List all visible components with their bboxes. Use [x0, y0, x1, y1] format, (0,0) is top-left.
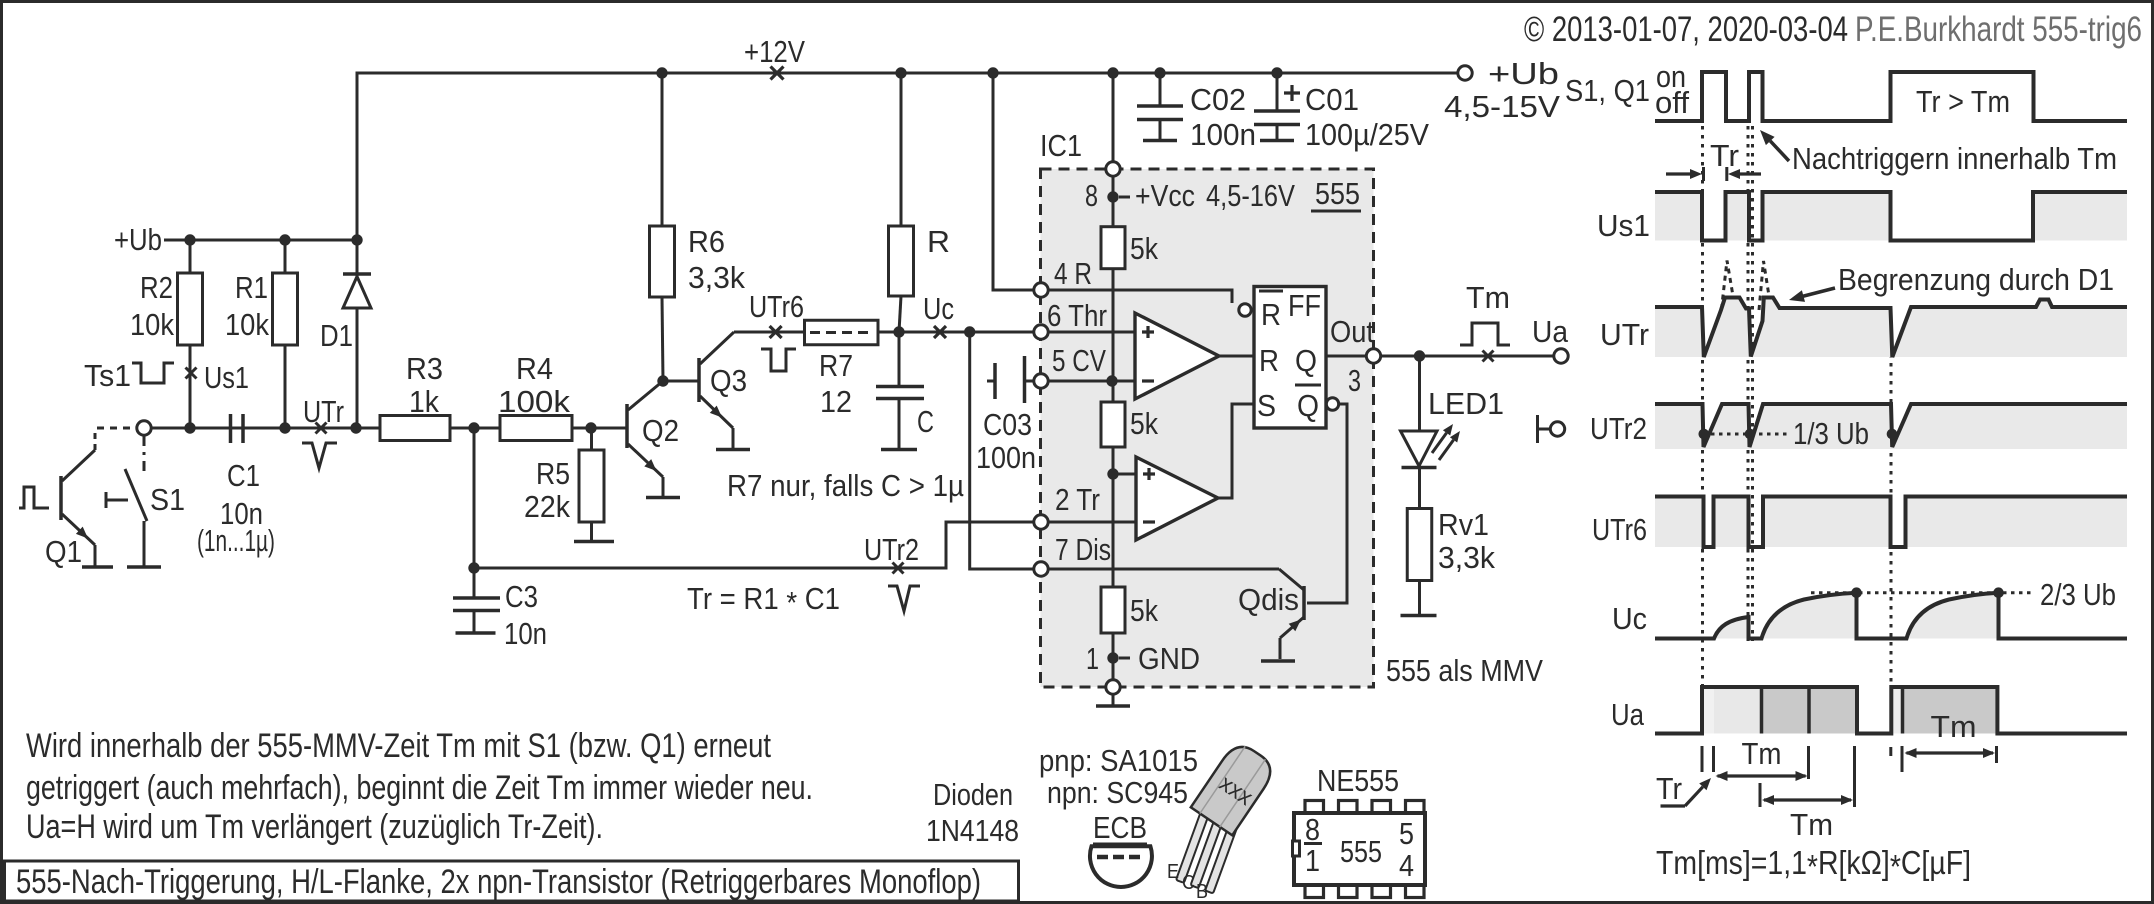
capacitor C01 (electrolytic, +) [1276, 73, 1279, 111]
svg-text:1k: 1k [409, 384, 439, 419]
svg-text:Q2: Q2 [642, 413, 679, 448]
svg-text:D1: D1 [320, 318, 353, 353]
capacitor C [898, 332, 901, 386]
capacitor C3 [473, 428, 476, 568]
svg-text:2/3 Ub: 2/3 Ub [2040, 577, 2116, 612]
svg-text:Ua: Ua [1532, 314, 1569, 349]
wire output Ua [1380, 355, 1554, 358]
svg-text:Rv1: Rv1 [1438, 507, 1489, 542]
annotation Tm dimension 2 [1759, 783, 1762, 807]
svg-text:C1: C1 [227, 458, 260, 493]
junction main/C3 [468, 422, 479, 433]
svg-text:C: C [917, 404, 934, 439]
wire UTr2 line [474, 522, 1033, 568]
svg-text:Us1: Us1 [204, 360, 249, 395]
symbol TO-92 bottom view [1090, 846, 1152, 887]
svg-text:5k: 5k [1130, 593, 1158, 628]
svg-text:555: 555 [1315, 176, 1360, 211]
svg-text:(1n...1µ): (1n...1µ) [197, 523, 275, 558]
svg-text:+Ub: +Ub [114, 222, 162, 257]
resistor R5 [590, 428, 593, 450]
wire comp1 to R [1219, 355, 1254, 358]
capacitor C03 [987, 380, 995, 383]
pin 1 GND [1112, 633, 1115, 680]
svg-text:R2: R2 [140, 270, 173, 305]
svg-text:+12V: +12V [744, 34, 805, 69]
svg-text:3: 3 [1348, 363, 1361, 398]
svg-text:1N4148: 1N4148 [926, 813, 1019, 848]
wire comp2 to S [1217, 404, 1254, 498]
svg-text:4,5-16V: 4,5-16V [1206, 178, 1295, 213]
title box [5, 861, 1019, 901]
svg-text:off: off [1655, 85, 1689, 120]
symbol TO-92 package 3D [1176, 807, 1240, 894]
svg-text:R6: R6 [688, 224, 725, 259]
svg-text:10k: 10k [225, 307, 269, 342]
resistor 5k bottom [1101, 587, 1125, 633]
wire +12V top rail [357, 72, 1465, 75]
wire Uc line [878, 331, 1033, 334]
svg-text:E: E [1167, 861, 1179, 883]
svg-text:R7 nur, falls C > 1µ: R7 nur, falls C > 1µ [727, 468, 964, 503]
waveform UTr2 [1536, 415, 1539, 443]
resistor R2 [189, 240, 192, 273]
svg-text:FF: FF [1288, 288, 1321, 323]
wire Uc to Dis [970, 332, 1033, 569]
svg-text:R4: R4 [516, 351, 553, 386]
svg-text:100µ/25V: 100µ/25V [1305, 117, 1429, 152]
svg-text:Dioden: Dioden [933, 777, 1013, 812]
svg-text:Uc: Uc [1612, 601, 1647, 636]
svg-text:Out: Out [1330, 314, 1374, 349]
svg-text:4 R: 4 R [1054, 256, 1092, 291]
wire D1 branch vertical [356, 72, 359, 241]
svg-text:5 CV: 5 CV [1052, 343, 1106, 378]
wire pin4 to FF Rbar [1048, 290, 1232, 303]
terminal trigger input [137, 421, 151, 435]
svg-text:UTr2: UTr2 [1590, 411, 1647, 446]
pin 2 Tr [1034, 515, 1048, 529]
svg-text:Tr > Tm: Tr > Tm [1916, 84, 2010, 119]
resistor Rv1 [1418, 468, 1421, 509]
junction rail R [895, 67, 906, 78]
svg-text:R1: R1 [235, 270, 268, 305]
svg-text:Tr = R1 * C1: Tr = R1 * C1 [687, 581, 840, 620]
svg-text:R5: R5 [536, 456, 570, 491]
svg-text:4: 4 [1399, 848, 1414, 883]
pin 7 Dis [1034, 562, 1048, 576]
svg-text:Us1: Us1 [1597, 208, 1650, 243]
svg-text:Tm: Tm [1931, 709, 1977, 744]
resistor R7 (optional) [805, 320, 879, 345]
annotation Tm dimension 3 [1889, 747, 1892, 756]
svg-text:R7: R7 [819, 348, 853, 383]
transistor Q2 [625, 404, 629, 448]
pin 6 Thr [1034, 325, 1048, 339]
resistor 5k mid [1101, 402, 1125, 447]
svg-text:Qdis: Qdis [1238, 582, 1299, 617]
pin 4 R [1034, 283, 1048, 297]
svg-text:GND: GND [1138, 641, 1200, 676]
svg-text:Ua=H wird um Tm verlängert (zu: Ua=H wird um Tm verlängert (zuzüglich Tr… [26, 808, 603, 846]
ground IC [1112, 694, 1115, 705]
terminal UTr2 probe [1536, 415, 1539, 443]
junction Uc/Dis [964, 326, 975, 337]
svg-text:S1, Q1: S1, Q1 [1565, 73, 1650, 108]
capacitor C1 [229, 414, 233, 443]
junction rail pin4 [987, 67, 998, 78]
junction main/R2 [184, 422, 195, 433]
svg-text:Tm: Tm [1790, 807, 1833, 842]
resistor R1 [284, 240, 287, 273]
svg-text:4,5-15V: 4,5-15V [1444, 89, 1560, 124]
svg-text:npn: SC945: npn: SC945 [1047, 775, 1188, 810]
svg-text:UTr2: UTr2 [864, 532, 919, 567]
resistor R3 [380, 416, 450, 441]
resistor 5k top [1112, 176, 1115, 227]
svg-text:R: R [1261, 297, 1281, 332]
svg-text:C3: C3 [505, 579, 538, 614]
junction main/R1 [279, 422, 290, 433]
resistor R [900, 73, 903, 226]
svg-text:10k: 10k [130, 307, 174, 342]
wire +Ub node line [164, 239, 357, 242]
capacitor C02 [1159, 73, 1162, 106]
junction rail C02 [1154, 67, 1165, 78]
svg-text:S1: S1 [150, 482, 185, 517]
pin 8 [1112, 73, 1115, 169]
svg-text:Begrenzung durch D1: Begrenzung durch D1 [1838, 262, 2114, 297]
svg-text:Tm: Tm [1466, 280, 1510, 315]
svg-text:100n: 100n [976, 440, 1036, 475]
svg-text:Q3: Q3 [710, 363, 747, 398]
svg-text:UTr: UTr [1600, 317, 1649, 352]
terminal Ua [1554, 349, 1568, 363]
svg-text:100n: 100n [1190, 117, 1256, 152]
annotation D1 clamp spikes dashed [1722, 261, 1734, 310]
svg-text:NE555: NE555 [1317, 763, 1399, 798]
switch S1 [143, 436, 146, 474]
svg-text:B: B [1196, 881, 1208, 903]
transistor Q1 [59, 476, 63, 520]
pin 3 out [1366, 349, 1380, 363]
svg-text:5k: 5k [1130, 406, 1158, 441]
svg-text:C01: C01 [1305, 82, 1359, 117]
annotation 1/3 Ub [1703, 433, 1787, 436]
junction rail R6 [656, 67, 667, 78]
svg-text:Q1: Q1 [45, 534, 82, 569]
svg-text:Ua: Ua [1611, 697, 1645, 732]
junction rail C01 [1271, 67, 1282, 78]
Qbar bubble and wire [1326, 398, 1338, 410]
junction divider comp2 [1112, 447, 1115, 587]
svg-text:1: 1 [1305, 843, 1320, 878]
svg-text:3,3k: 3,3k [1438, 540, 1495, 575]
svg-text:P.E.Burkhardt 555-trig6: P.E.Burkhardt 555-trig6 [1855, 10, 2142, 49]
svg-text:getriggert (auch mehrfach), be: getriggert (auch mehrfach), beginnt die … [26, 769, 813, 807]
svg-text:R: R [927, 224, 950, 259]
wire Q to pin3 [1326, 355, 1366, 358]
junction main/R5 [585, 422, 596, 433]
svg-text:LED1: LED1 [1428, 386, 1504, 421]
svg-text:Uc: Uc [923, 291, 954, 326]
svg-text:7 Dis: 7 Dis [1055, 532, 1111, 567]
svg-text:12: 12 [820, 384, 852, 419]
svg-text:555-Nach-Triggerung, H/L-Flank: 555-Nach-Triggerung, H/L-Flanke, 2x npn-… [16, 863, 981, 901]
svg-text:5: 5 [1399, 816, 1414, 851]
junction main/D1 [350, 422, 361, 433]
flip-flop FF [1254, 287, 1326, 429]
svg-text:555 als MMV: 555 als MMV [1386, 653, 1543, 688]
svg-text:1/3 Ub: 1/3 Ub [1793, 416, 1869, 451]
pin 5 CV [1034, 374, 1048, 388]
annotation 2/3 Ub [1811, 591, 2032, 594]
transistor Q3 [697, 358, 701, 402]
IC1 555 block [1041, 169, 1374, 687]
svg-text:R: R [1259, 343, 1279, 378]
junction Q2 collector [657, 375, 668, 386]
svg-text:8: 8 [1305, 812, 1320, 847]
svg-text:pnp: SA1015: pnp: SA1015 [1039, 743, 1198, 778]
svg-text:ECB: ECB [1093, 810, 1147, 845]
comparator 1 [1135, 313, 1219, 399]
svg-text:C: C [1182, 872, 1195, 894]
svg-text:Tr: Tr [1656, 771, 1682, 806]
svg-text:Tm[ms]=1,1*R[kΩ]*C[µF]: Tm[ms]=1,1*R[kΩ]*C[µF] [1656, 844, 1971, 885]
svg-text:100k: 100k [498, 384, 571, 419]
svg-text:+Vcc: +Vcc [1135, 178, 1195, 213]
svg-text:10n: 10n [504, 616, 547, 651]
svg-text:C02: C02 [1190, 82, 1246, 117]
svg-text:C03: C03 [983, 407, 1032, 442]
wire dashed stub to Q1 [97, 427, 136, 430]
LED1 [1418, 356, 1421, 431]
wire main trigger line [151, 427, 627, 430]
svg-text:6 Thr: 6 Thr [1047, 298, 1107, 333]
svg-text:S: S [1257, 388, 1276, 423]
wire Q3 base [663, 380, 699, 383]
svg-text:Tr: Tr [1710, 138, 1739, 173]
resistor R4 [500, 416, 572, 441]
svg-text:Q: Q [1295, 343, 1317, 378]
resistor R6 [661, 73, 664, 226]
transistor Qdis [1279, 569, 1304, 590]
svg-text:Tm: Tm [1742, 736, 1782, 771]
svg-text:Wird innerhalb der 555-MMV-Zei: Wird innerhalb der 555-MMV-Zeit Tm mit S… [26, 727, 771, 765]
terminal +Ub top right [1458, 66, 1472, 80]
svg-text:Nachtriggern innerhalb Tm: Nachtriggern innerhalb Tm [1792, 141, 2117, 176]
svg-text:8: 8 [1085, 178, 1098, 213]
comparator 2 [1113, 473, 1136, 476]
svg-text:Q: Q [1297, 388, 1319, 423]
wire UTr6 line [734, 331, 805, 334]
svg-text:UTr6: UTr6 [1592, 512, 1647, 547]
svg-text:IC1: IC1 [1040, 128, 1082, 163]
svg-text:3,3k: 3,3k [688, 260, 745, 295]
svg-text:+Ub: +Ub [1488, 56, 1559, 91]
svg-text:1: 1 [1086, 641, 1099, 676]
diode D1 [356, 240, 359, 428]
svg-text:22k: 22k [524, 489, 570, 524]
svg-text:UTr6: UTr6 [749, 289, 804, 324]
svg-text:5k: 5k [1130, 231, 1158, 266]
junction rail pin8 [1107, 67, 1118, 78]
svg-text:R3: R3 [406, 351, 443, 386]
annotation Tm dimension 1 [1701, 746, 1704, 772]
svg-text:2 Tr: 2 Tr [1055, 482, 1100, 517]
svg-text:555: 555 [1340, 834, 1382, 869]
svg-text:© 2013-01-07, 2020-03-04: © 2013-01-07, 2020-03-04 [1524, 10, 1848, 49]
junction R/C [893, 326, 904, 337]
svg-text:Ts1: Ts1 [84, 358, 131, 393]
timing grid dotted trigger lines [1701, 126, 1704, 685]
